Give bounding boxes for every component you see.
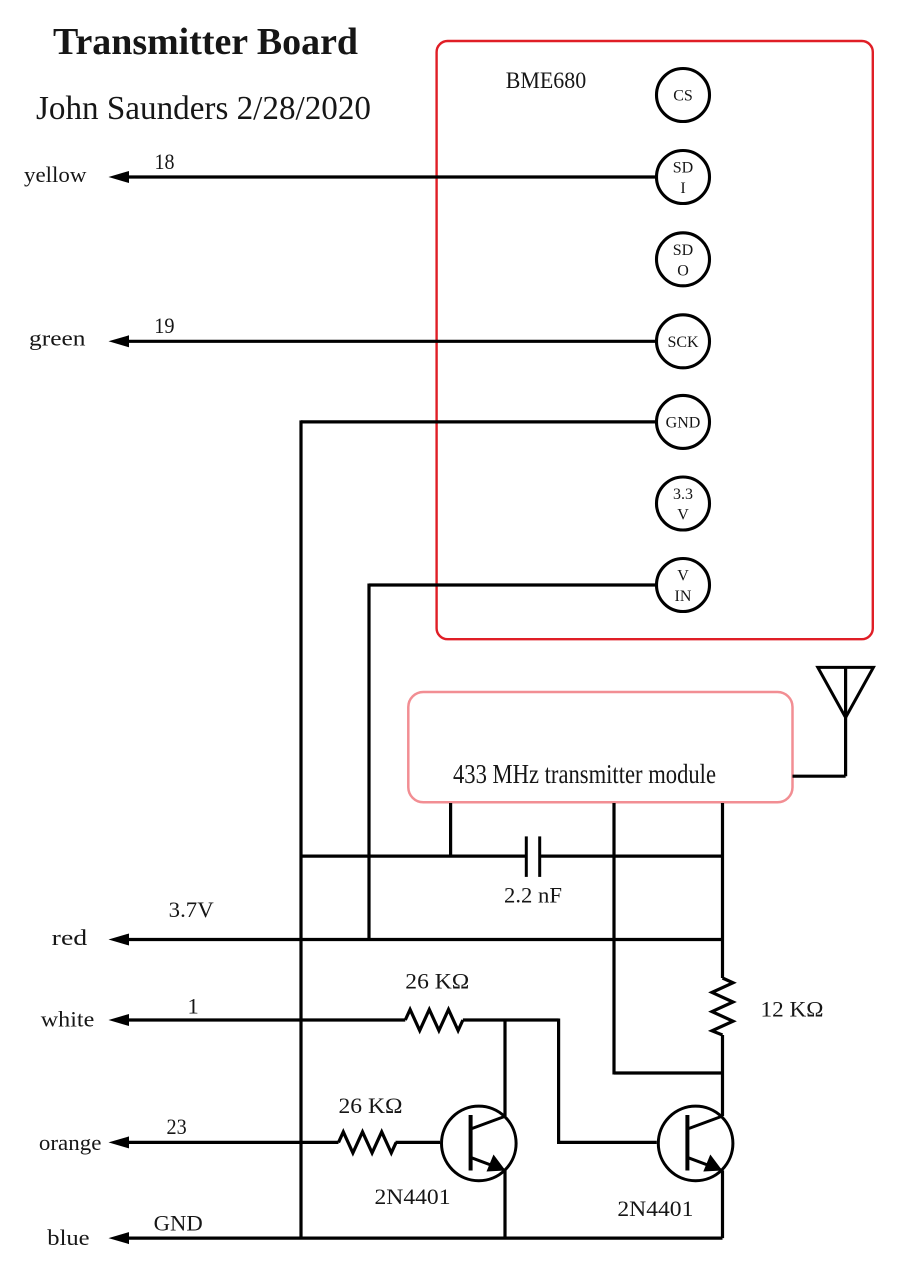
svg-text:12 KΩ: 12 KΩ bbox=[761, 997, 824, 1022]
pin SCK bbox=[657, 315, 710, 368]
svg-text:26 KΩ: 26 KΩ bbox=[405, 969, 469, 994]
wire orange line bbox=[109, 1136, 441, 1148]
wire yellow to SDI bbox=[109, 171, 657, 183]
transistor Q2 2N4401 bbox=[658, 1106, 733, 1181]
svg-text:yellow: yellow bbox=[24, 162, 87, 187]
svg-text:2.2 nF: 2.2 nF bbox=[504, 883, 562, 908]
svg-text:SCK: SCK bbox=[667, 334, 699, 351]
svg-text:IN: IN bbox=[675, 588, 692, 605]
pin SDO bbox=[657, 233, 710, 286]
resistor 26 K (orange row) bbox=[339, 1132, 397, 1153]
resistor 12 K bbox=[712, 978, 733, 1035]
svg-text:BME680: BME680 bbox=[506, 68, 587, 93]
wire module pin2 horizontal to collector line bbox=[614, 1071, 723, 1074]
svg-text:John Saunders 2/28/2020: John Saunders 2/28/2020 bbox=[36, 90, 371, 127]
svg-text:1: 1 bbox=[188, 994, 199, 1019]
svg-text:3.3: 3.3 bbox=[673, 486, 693, 503]
wire Q2 emitter vertical bbox=[721, 1171, 724, 1239]
wire bus right of capacitor bbox=[540, 854, 723, 857]
wire Q1 emitter vertical bbox=[503, 1171, 506, 1239]
svg-text:2N4401: 2N4401 bbox=[375, 1184, 451, 1209]
BME680 module box bbox=[437, 41, 873, 639]
capacitor C1 2.2 nF bbox=[526, 836, 539, 877]
wire ground bus left of capacitor bbox=[301, 854, 526, 857]
svg-text:SD: SD bbox=[673, 160, 693, 177]
svg-text:2N4401: 2N4401 bbox=[617, 1196, 693, 1221]
svg-text:3.7V: 3.7V bbox=[169, 897, 214, 922]
wire blue GND bus bbox=[109, 1232, 723, 1244]
svg-text:white: white bbox=[41, 1007, 95, 1032]
svg-text:23: 23 bbox=[167, 1114, 187, 1139]
wire module pin2 vertical bbox=[612, 803, 615, 1075]
svg-text:18: 18 bbox=[155, 149, 175, 174]
pin CS bbox=[657, 69, 710, 122]
transistor Q1 2N4401 bbox=[442, 1106, 517, 1181]
svg-text:GND: GND bbox=[154, 1211, 203, 1236]
wire white line bbox=[109, 1014, 559, 1026]
svg-text:O: O bbox=[677, 262, 689, 279]
svg-text:GND: GND bbox=[666, 414, 701, 431]
wire 12K bottom to Q2 collector bbox=[721, 1035, 724, 1116]
pin 3.3V bbox=[657, 477, 710, 530]
433 MHz transmitter module box bbox=[408, 692, 792, 802]
wire VIN horizontal bbox=[369, 583, 656, 586]
svg-text:19: 19 bbox=[154, 313, 174, 338]
svg-text:26 KΩ: 26 KΩ bbox=[339, 1093, 403, 1118]
antenna bbox=[793, 667, 874, 776]
wire GND horizontal bbox=[301, 420, 656, 423]
svg-text:blue: blue bbox=[47, 1225, 89, 1250]
svg-text:orange: orange bbox=[39, 1130, 102, 1155]
wire module pin3 vertical bbox=[721, 803, 724, 978]
svg-text:I: I bbox=[680, 180, 685, 197]
svg-text:green: green bbox=[29, 326, 86, 351]
wire VIN vertical bbox=[367, 584, 370, 940]
svg-text:red: red bbox=[52, 925, 87, 950]
wire green to SCK bbox=[109, 335, 657, 347]
svg-text:V: V bbox=[677, 507, 689, 524]
wire Q1 collector vertical bbox=[503, 1020, 506, 1116]
wire module pin1 stub bbox=[449, 803, 452, 856]
svg-text:V: V bbox=[677, 568, 689, 585]
svg-text:Transmitter Board: Transmitter Board bbox=[53, 21, 358, 63]
resistor 26 K (white row) bbox=[405, 1010, 463, 1031]
pin GND bbox=[657, 395, 710, 448]
wire white corner down to Q2 base bbox=[559, 1019, 657, 1143]
svg-text:SD: SD bbox=[673, 242, 693, 259]
pin SDI bbox=[657, 151, 710, 204]
wire red 3.7V line bbox=[109, 934, 723, 946]
svg-text:433 MHz transmitter module: 433 MHz transmitter module bbox=[453, 759, 716, 789]
wire GND vertical bbox=[299, 420, 302, 1239]
svg-text:CS: CS bbox=[673, 88, 693, 105]
pin VIN bbox=[657, 559, 710, 612]
